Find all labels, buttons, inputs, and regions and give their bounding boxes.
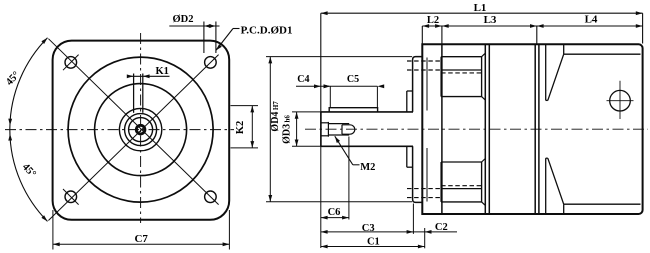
- svg-text:L3: L3: [484, 14, 497, 26]
- svg-text:C4: C4: [297, 74, 309, 85]
- svg-text:C7: C7: [134, 233, 148, 245]
- svg-text:ØD3 h6: ØD3 h6: [282, 115, 293, 144]
- svg-text:C2: C2: [435, 222, 448, 233]
- svg-text:C6: C6: [328, 207, 341, 218]
- svg-text:K1: K1: [155, 66, 168, 77]
- svg-text:M2: M2: [360, 162, 375, 173]
- svg-text:L4: L4: [585, 13, 598, 25]
- svg-text:L2: L2: [427, 15, 439, 26]
- svg-text:C5: C5: [347, 74, 359, 85]
- svg-text:ØD2: ØD2: [173, 14, 194, 25]
- svg-text:C1: C1: [367, 236, 380, 247]
- svg-text:ØD4 H7: ØD4 H7: [270, 101, 281, 132]
- svg-text:L1: L1: [474, 2, 487, 14]
- svg-text:P.C.D.ØD1: P.C.D.ØD1: [241, 24, 293, 36]
- svg-text:C3: C3: [362, 223, 375, 234]
- svg-text:K2: K2: [235, 121, 246, 134]
